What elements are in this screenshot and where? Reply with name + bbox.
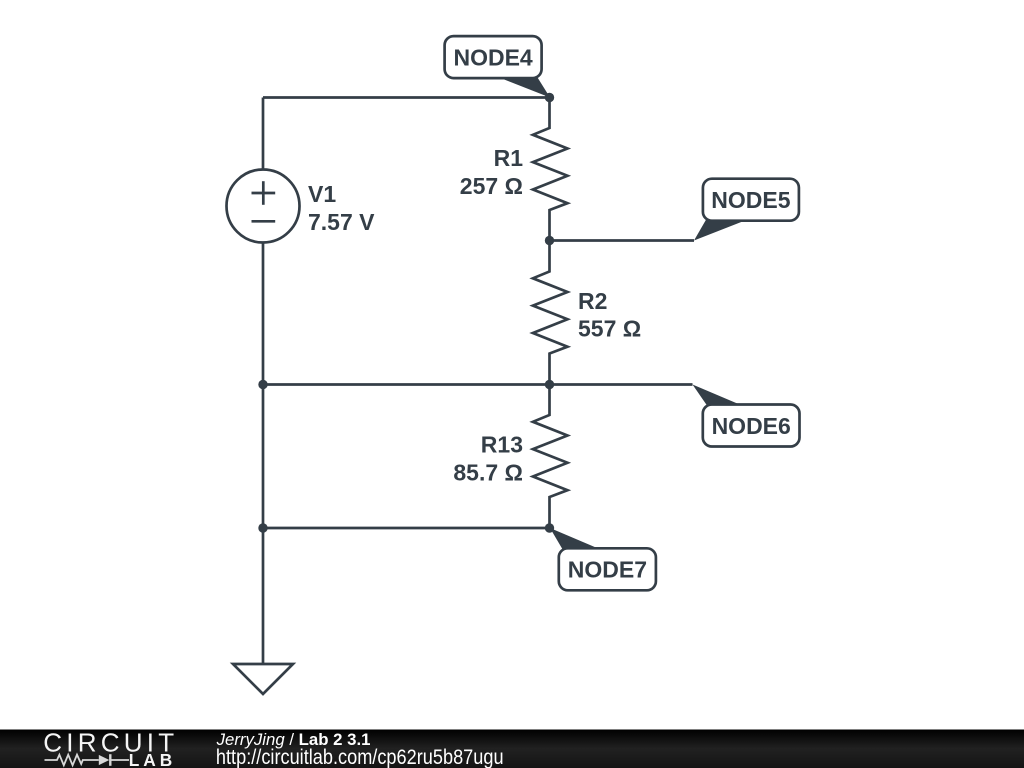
svg-text:557 Ω: 557 Ω [578, 316, 641, 342]
svg-text:85.7 Ω: 85.7 Ω [453, 459, 523, 485]
svg-text:7.57 V: 7.57 V [308, 209, 375, 235]
svg-text:R2: R2 [578, 288, 607, 314]
svg-text:NODE6: NODE6 [712, 413, 791, 439]
svg-text:NODE5: NODE5 [711, 187, 790, 213]
svg-text:http://circuitlab.com/cp62ru5b: http://circuitlab.com/cp62ru5b87ugu [216, 746, 504, 768]
svg-text:R13: R13 [481, 431, 523, 457]
svg-text:R1: R1 [494, 145, 524, 171]
svg-text:NODE7: NODE7 [568, 557, 647, 583]
svg-text:257 Ω: 257 Ω [460, 173, 523, 199]
svg-text:V1: V1 [308, 181, 336, 207]
svg-text:LAB: LAB [129, 750, 177, 768]
svg-text:NODE4: NODE4 [453, 45, 532, 71]
